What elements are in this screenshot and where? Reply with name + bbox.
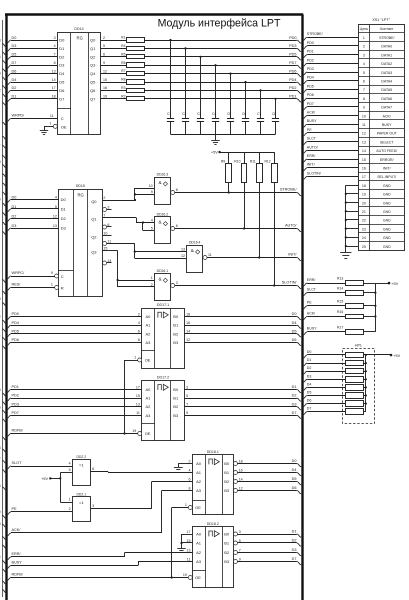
wire bus PD1 to XS1 contact 3	[303, 50, 359, 58]
svg-text:D6: D6	[12, 69, 17, 73]
resistor R8	[127, 80, 145, 85]
svg-text:Контакт: Контакт	[380, 27, 393, 31]
svg-text:B1: B1	[224, 470, 230, 475]
nand gate DD16.3	[149, 173, 178, 205]
wire bus D2 to DD14 pin 17	[2, 86, 57, 97]
svg-text:D7: D7	[307, 407, 312, 411]
svg-text:R12: R12	[264, 160, 270, 164]
wire bus D2 to DD15 pin 12	[2, 214, 58, 225]
svg-text:D5: D5	[12, 53, 17, 57]
svg-text:B0: B0	[224, 532, 230, 537]
wire stub tap on left bus	[2, 460, 7, 464]
svg-text:7: 7	[363, 88, 365, 92]
register DD15	[59, 184, 103, 297]
wire bus PD3 to XS1 contact 5	[303, 67, 359, 75]
svg-text:A0: A0	[146, 387, 152, 392]
svg-text:9: 9	[103, 61, 105, 65]
svg-text:+5V: +5V	[41, 477, 48, 481]
svg-text:D1: D1	[61, 207, 67, 212]
svg-text:D0: D0	[12, 36, 17, 40]
svg-text:DD16.2: DD16.2	[157, 212, 169, 216]
svg-text:D4: D4	[292, 321, 297, 325]
svg-text:D4: D4	[12, 78, 17, 82]
svg-text:R7: R7	[121, 69, 125, 73]
svg-text:1: 1	[151, 276, 153, 280]
wire R12 to signal line	[273, 183, 275, 287]
wire DD14 OE pin 1 to ground	[44, 122, 57, 131]
svg-text:13: 13	[53, 224, 57, 228]
capacitor C2	[182, 47, 189, 134]
wire bus D5 to DD14 pin 7	[2, 53, 57, 64]
wire HP1.7 to common	[363, 403, 367, 405]
svg-text:B0: B0	[224, 461, 230, 466]
svg-text:DD17.1: DD17.1	[157, 303, 169, 307]
svg-text:DD15: DD15	[76, 184, 85, 188]
wire rail to ground	[215, 134, 217, 140]
svg-text:D5: D5	[292, 329, 297, 333]
svg-text:PD7: PD7	[289, 61, 296, 65]
wire bus INIT/ to XS1 contact 16	[303, 163, 359, 171]
svg-text:5: 5	[55, 205, 57, 209]
svg-text:ACK/: ACK/	[383, 114, 391, 118]
wire bus PD2 to XS1 contact 4	[303, 58, 359, 66]
svg-text:ACK/: ACK/	[307, 110, 315, 114]
svg-text:C2: C2	[182, 112, 186, 116]
wire bus PD6 to DD17.1 A3	[2, 338, 142, 350]
svg-text:PD1: PD1	[289, 95, 296, 99]
svg-text:Цепь: Цепь	[360, 27, 369, 31]
svg-text:D0: D0	[59, 38, 65, 43]
svg-text:R5: R5	[121, 52, 125, 56]
wire R2 to bus PD1	[144, 95, 301, 102]
wire DD15 Q3 pin15 to DD16.1 inputs	[103, 251, 155, 288]
svg-text:AUTO/: AUTO/	[307, 145, 318, 149]
svg-text:B3: B3	[224, 559, 230, 564]
nand gate DD16.1	[151, 269, 178, 301]
svg-text:13: 13	[52, 69, 56, 73]
resistor network HP1 outline	[343, 343, 375, 423]
wire DD18.2 B1 to bus D2	[238, 539, 302, 547]
wire R13 to +5V rail	[363, 283, 375, 285]
DD15 output pin 3	[103, 205, 112, 211]
svg-text:11: 11	[136, 411, 140, 415]
svg-text:B1: B1	[173, 323, 179, 328]
resistor R10	[234, 160, 246, 183]
svg-text:A3: A3	[146, 413, 152, 418]
resistor R4	[127, 47, 145, 51]
bus right D0-D7 peripheral bus	[301, 15, 303, 600]
wire DD14 pin 5 to resistor R4	[101, 44, 127, 49]
svg-text:DATA4: DATA4	[381, 80, 392, 84]
svg-text:BUSY: BUSY	[12, 561, 23, 565]
svg-text:INIT/: INIT/	[383, 167, 391, 171]
svg-text:D1: D1	[12, 205, 17, 209]
svg-text:D2: D2	[59, 54, 65, 59]
svg-text:Q1: Q1	[90, 46, 96, 51]
wire stub tap on left bus	[2, 155, 7, 159]
svg-text:14: 14	[186, 330, 190, 334]
svg-text:WRPD/: WRPD/	[12, 114, 26, 118]
ground below capacitor rail	[211, 140, 219, 142]
svg-text:A2: A2	[196, 479, 202, 484]
wire bus PD4 to XS1 contact 6	[303, 76, 359, 84]
svg-text:DATA7: DATA7	[381, 106, 392, 110]
svg-text:18: 18	[239, 459, 243, 463]
svg-text:13: 13	[181, 247, 185, 251]
wire HP1.2 to common	[363, 362, 367, 364]
svg-text:14: 14	[362, 149, 366, 153]
wire R11 to signal line	[258, 183, 260, 259]
DD15 output pin 11	[103, 239, 112, 245]
svg-text:B2: B2	[224, 479, 230, 484]
wire AUTO/ DD16.2 out to bus	[175, 224, 302, 232]
svg-text:=1: =1	[79, 463, 84, 468]
resistor HP1.5	[346, 385, 364, 391]
frame top border	[5, 13, 303, 16]
svg-text:A3: A3	[196, 559, 202, 564]
svg-text:D7: D7	[12, 61, 17, 65]
svg-text:ERROR/: ERROR/	[380, 158, 394, 162]
wire bus ERR/ to XS1 contact 15	[303, 154, 359, 162]
svg-text:A1: A1	[146, 396, 152, 401]
wire R17 to +5V rail	[363, 331, 375, 333]
svg-text:GND: GND	[383, 184, 391, 188]
svg-text:3: 3	[176, 281, 178, 285]
wire DD17.1 B3 to bus D6	[184, 338, 301, 346]
wire DD15 Q1 pin7 to DD16.2 inputs	[103, 218, 155, 231]
svg-text:ERR/: ERR/	[307, 154, 316, 158]
svg-text:6: 6	[92, 467, 94, 471]
wire XS1 GND contacts 18-25 common	[345, 185, 359, 252]
ground at DD14 OE	[40, 130, 48, 132]
resistor R11	[250, 160, 263, 183]
wire stub tap on left bus	[2, 174, 7, 178]
svg-text:D2: D2	[307, 366, 312, 370]
svg-text:15: 15	[362, 158, 366, 162]
register DD14	[57, 27, 100, 135]
wire WRPD/ to DD14 pin 11 (C)	[2, 114, 57, 126]
svg-text:5: 5	[363, 71, 365, 75]
wire bus PE to R15	[303, 301, 345, 309]
svg-text:PE: PE	[307, 301, 312, 305]
svg-text:19: 19	[183, 573, 187, 577]
svg-text:RG: RG	[77, 35, 83, 40]
resistor R17	[337, 326, 364, 335]
svg-text:5: 5	[151, 226, 153, 230]
wire +5V to R9	[228, 152, 230, 164]
svg-text:D3: D3	[61, 226, 67, 231]
xor gate DD2.1	[69, 492, 95, 521]
wire bus PD6 to XS1 contact 8	[303, 93, 359, 101]
svg-text:DD16.3: DD16.3	[157, 173, 169, 177]
wire bus PD0 to XS1 contact 2	[303, 41, 359, 49]
wire DD18.1 OE to RDFB/ line	[171, 508, 189, 579]
svg-text:D3: D3	[12, 224, 17, 228]
svg-text:5: 5	[69, 468, 71, 472]
svg-text:1: 1	[51, 283, 53, 287]
wire DD17.1 B0 to bus D0	[184, 312, 301, 320]
wire DD2.2 out to DD18.1 A1	[90, 472, 192, 473]
svg-text:C5: C5	[227, 112, 231, 116]
resistor R3	[127, 89, 145, 93]
svg-text:C1: C1	[167, 112, 171, 116]
svg-text:Q1: Q1	[91, 217, 97, 222]
nor... wire DD15 Q0 pin2 to DD16.3 inputs	[103, 188, 155, 201]
svg-text:12: 12	[181, 254, 185, 258]
wire bus PE to XS1 contact 12	[303, 128, 359, 136]
svg-text:PD0: PD0	[289, 36, 296, 40]
svg-text:D2: D2	[292, 394, 297, 398]
svg-text:4: 4	[55, 195, 57, 199]
svg-text:C8: C8	[272, 112, 276, 116]
svg-text:C4: C4	[212, 112, 216, 116]
svg-text:DATA6: DATA6	[381, 97, 392, 101]
wire DD14 pin 12 to resistor R7	[101, 69, 127, 73]
svg-text:1: 1	[50, 122, 52, 126]
svg-text:R3: R3	[121, 86, 125, 90]
wire left page edge line	[2, 20, 4, 597]
wire bus PD5 to DD17.1 A2	[2, 329, 142, 341]
svg-text:3: 3	[186, 385, 188, 389]
wire DD14 pin 2 to resistor R1	[101, 36, 127, 41]
resistor HP1.2	[346, 361, 364, 366]
svg-text:D3: D3	[292, 402, 297, 406]
wire RDFB/ to DD17.2 OE	[2, 429, 138, 441]
svg-text:DD18.2: DD18.2	[207, 522, 219, 526]
wire bus D4 to DD14 pin 14	[2, 78, 57, 89]
wire bus PD2 to DD17.2 A1	[2, 394, 142, 406]
svg-text:D2: D2	[12, 214, 17, 218]
svg-text:12: 12	[239, 486, 243, 490]
wire R16 to +5V rail	[363, 315, 376, 317]
wire bus BUSY to R17	[303, 327, 345, 335]
svg-text:D6: D6	[292, 486, 297, 490]
svg-text:6: 6	[189, 477, 191, 481]
nand gate DD16.4	[181, 241, 212, 273]
svg-text:PD3: PD3	[289, 44, 296, 48]
svg-text:Q2: Q2	[90, 54, 96, 59]
svg-text:R10: R10	[234, 160, 240, 164]
wire stub tap on left bus	[2, 145, 7, 149]
buffer DD18.1	[185, 450, 243, 515]
svg-text:R4: R4	[121, 44, 125, 48]
wire stub tap on left bus	[2, 524, 7, 528]
svg-text:STROBE/: STROBE/	[379, 36, 394, 40]
wire DD18.1 B1 to bus D4	[238, 468, 302, 476]
wire R8 to bus PD4	[144, 78, 301, 85]
svg-text:DATA5: DATA5	[381, 88, 392, 92]
svg-text:A3: A3	[196, 488, 202, 493]
wire DD15 Q2 pin11 to DD16.4 inputs	[105, 244, 187, 259]
DD15 output pin 15	[103, 246, 107, 250]
svg-text:PD2: PD2	[307, 58, 314, 62]
svg-text:GND: GND	[383, 219, 391, 223]
svg-text:14: 14	[52, 78, 56, 82]
wire bus D2 to HP1	[303, 366, 345, 374]
svg-text:R17: R17	[337, 326, 343, 330]
wire bus D1 to DD15 pin 5	[2, 205, 58, 216]
wire stub tap on left bus	[2, 449, 7, 453]
wire +5V to R11	[259, 152, 261, 164]
wire SLOT to DD2.2 pin 4	[2, 461, 72, 473]
resistor R9	[221, 160, 232, 183]
svg-text:20: 20	[362, 201, 366, 205]
wire DD14 pin 6 to resistor R5	[101, 52, 127, 56]
svg-text:OE: OE	[195, 575, 201, 580]
svg-text:R6: R6	[121, 61, 125, 65]
wire PE to DD2.1 pin 2	[2, 507, 72, 519]
wire stub tap on left bus	[2, 192, 7, 196]
svg-text:25: 25	[362, 245, 366, 249]
wire HP1.3 to common	[363, 370, 367, 372]
resistor HP1.7	[346, 401, 364, 407]
svg-text:D1: D1	[59, 46, 65, 51]
svg-text:D0: D0	[292, 312, 297, 316]
wire bus D7 to HP1	[303, 407, 345, 415]
svg-text:SLOTIN/: SLOTIN/	[307, 171, 321, 175]
capacitor C7	[257, 89, 264, 134]
svg-text:B1: B1	[173, 396, 179, 401]
svg-text:D2: D2	[61, 216, 67, 221]
svg-text:16: 16	[239, 468, 243, 472]
svg-text:DD16.1: DD16.1	[157, 269, 169, 273]
svg-text:PD5: PD5	[12, 329, 19, 333]
svg-text:GND: GND	[383, 236, 391, 240]
svg-text:DD14: DD14	[74, 27, 83, 31]
wire bus SLCT to XS1 contact 13	[303, 137, 359, 145]
svg-text:PD2: PD2	[289, 86, 296, 90]
svg-text:PD4: PD4	[307, 76, 314, 80]
wire DD17.1 B2 to bus D5	[184, 329, 301, 337]
svg-text:12: 12	[53, 214, 57, 218]
svg-text:DD18.1: DD18.1	[207, 450, 219, 454]
svg-text:A1: A1	[196, 470, 202, 475]
wire DD17.2 B3 to bus D7	[184, 411, 301, 419]
wire bus D3 to HP1	[303, 374, 345, 382]
wire R14 to +5V rail	[363, 292, 376, 294]
svg-text:PD6: PD6	[289, 69, 296, 73]
DD15 output pin 6	[103, 223, 112, 229]
svg-text:3: 3	[363, 53, 365, 57]
wire bus D0 to HP1	[303, 350, 345, 358]
svg-text:B0: B0	[173, 387, 179, 392]
wire DD14 pin 16 to resistor R3	[101, 86, 127, 91]
svg-text:STROBE/: STROBE/	[307, 32, 323, 36]
svg-text:INIT/: INIT/	[288, 253, 297, 257]
svg-text:D0: D0	[12, 195, 17, 199]
svg-text:D1: D1	[292, 530, 297, 534]
svg-text:D2: D2	[292, 539, 297, 543]
svg-text:9: 9	[151, 190, 153, 194]
svg-text:15: 15	[103, 78, 107, 82]
svg-text:GND: GND	[383, 210, 391, 214]
wire stub tap on left bus	[2, 183, 7, 187]
svg-text:7: 7	[239, 548, 241, 552]
svg-text:AUTO/: AUTO/	[285, 224, 297, 228]
wire R1 to bus PD0	[144, 36, 301, 43]
svg-text:19: 19	[132, 429, 136, 433]
wire R6 to bus PD7	[144, 61, 301, 68]
svg-text:Q7: Q7	[90, 96, 96, 101]
svg-text:Модуль интерфейса LPT: Модуль интерфейса LPT	[158, 18, 281, 30]
wire bus D7 to DD14 pin 8	[2, 61, 57, 72]
svg-text:A3: A3	[146, 340, 152, 345]
wire DD17.1 OE to RDFB/ line	[123, 360, 137, 435]
svg-text:&: &	[159, 220, 162, 225]
wire bus BUSY to XS1 contact 11	[303, 119, 359, 127]
svg-text:7: 7	[103, 213, 105, 217]
svg-text:21: 21	[362, 210, 366, 214]
wire bus PD7 to XS1 contact 9	[303, 102, 359, 110]
svg-text:B3: B3	[173, 340, 179, 345]
wire RES/ to DD15 pin 1 (R)	[2, 283, 58, 295]
wire bus D6 to HP1	[303, 399, 345, 407]
svg-text:PD0: PD0	[12, 312, 19, 316]
wire ACK/ to DD18.1 A3	[2, 491, 192, 541]
wire HP1.5 to common	[363, 386, 367, 388]
wire bus PD0 to DD17.1 A0	[2, 312, 142, 324]
svg-text:8: 8	[138, 338, 140, 342]
svg-text:5: 5	[103, 44, 105, 48]
svg-text:7: 7	[186, 403, 188, 407]
svg-text:DD2.1: DD2.1	[76, 492, 86, 496]
wire DD18.2 B0 to bus D1	[238, 530, 302, 538]
svg-text:9: 9	[363, 106, 365, 110]
svg-text:4: 4	[363, 62, 365, 66]
wire WRPC/ to DD15 pin 9 (C)	[2, 271, 58, 283]
svg-text:B2: B2	[224, 550, 230, 555]
svg-text:RDFB/: RDFB/	[12, 573, 24, 577]
svg-text:11: 11	[208, 253, 212, 257]
wire stub tap on left bus	[2, 487, 7, 491]
wire DD14 pin 9 to resistor R6	[101, 61, 127, 66]
svg-text:18: 18	[362, 184, 366, 188]
svg-text:2: 2	[103, 36, 105, 40]
wire R3 to bus PD2	[144, 86, 301, 93]
capacitor C8	[272, 98, 279, 134]
svg-text:4: 4	[189, 468, 191, 472]
wire bus D1 to DD14 pin 18	[2, 95, 57, 106]
svg-text:D5: D5	[59, 80, 65, 85]
svg-text:9: 9	[239, 557, 241, 561]
svg-text:RG: RG	[77, 193, 83, 198]
svg-text:Q6: Q6	[90, 88, 96, 93]
svg-text:OE: OE	[61, 124, 67, 129]
svg-text:PD6: PD6	[307, 93, 314, 97]
svg-text:SEL.INPUT/: SEL.INPUT/	[377, 175, 396, 179]
svg-text:17: 17	[362, 175, 366, 179]
svg-text:B0: B0	[173, 314, 179, 319]
svg-text:&: &	[191, 248, 194, 253]
wire bus STROBE/ to XS1 contact 1	[303, 32, 359, 40]
svg-text:11: 11	[107, 239, 111, 243]
wire bus D4 to HP1	[303, 382, 345, 390]
svg-text:D4: D4	[307, 382, 312, 386]
svg-text:+5V: +5V	[393, 354, 400, 358]
svg-text:A1: A1	[146, 323, 152, 328]
svg-text:Q0: Q0	[90, 38, 96, 43]
svg-text:13: 13	[187, 548, 191, 552]
svg-text:SLOTIN/: SLOTIN/	[282, 281, 298, 285]
svg-text:A2: A2	[146, 331, 152, 336]
svg-text:3: 3	[107, 205, 109, 209]
svg-text:&: &	[159, 276, 162, 281]
svg-text:D1: D1	[307, 358, 312, 362]
svg-text:Q0: Q0	[91, 199, 97, 204]
wire stub tap on left bus	[2, 136, 7, 140]
wire stub tap on left bus	[2, 303, 7, 307]
svg-text:6: 6	[138, 330, 140, 334]
